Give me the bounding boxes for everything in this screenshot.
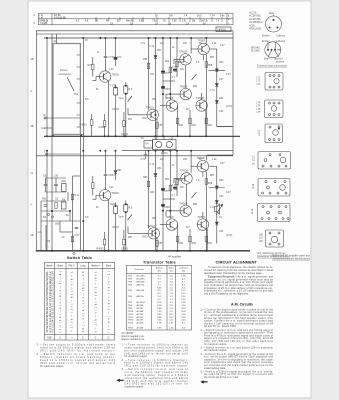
svg-text:4.96: 4.96 bbox=[139, 21, 144, 23]
capacitor C206 bbox=[144, 154, 148, 155]
diode D305 bbox=[215, 201, 218, 204]
svg-text:9s7.7k: 9s7.7k bbox=[201, 21, 209, 23]
svg-text:AC188: AC188 bbox=[137, 327, 144, 330]
svg-text:R60: R60 bbox=[208, 124, 213, 127]
wire bbox=[69, 211, 71, 221]
strip outer box bbox=[39, 13, 234, 25]
svg-text:TR11: TR11 bbox=[128, 314, 134, 316]
svg-text:C87: C87 bbox=[219, 195, 224, 198]
transistor TR513 bbox=[197, 219, 208, 230]
transistor TR509 bbox=[181, 173, 192, 184]
cap C52 bbox=[161, 71, 164, 73]
svg-text:D53: D53 bbox=[219, 61, 224, 64]
terminal bbox=[73, 252, 75, 254]
res R56 bbox=[169, 67, 171, 73]
transistor TR511 bbox=[166, 219, 177, 230]
svg-text:BC148C: BC148C bbox=[137, 278, 146, 280]
wire upper channel +rail bbox=[44, 37, 233, 39]
IC box 1 bbox=[265, 73, 283, 91]
value labels bbox=[112, 191, 120, 195]
svg-text:C: C bbox=[94, 337, 96, 340]
svg-text:14.8.81 9B: 14.8.81 9B bbox=[54, 16, 66, 19]
svg-text:7.74: 7.74 bbox=[210, 15, 215, 17]
junction dot bbox=[104, 250, 106, 252]
svg-text:R.5: R.5 bbox=[129, 207, 133, 210]
wire top rail 2 bbox=[36, 33, 233, 35]
label Power Connector bbox=[59, 68, 79, 96]
svg-text:R80: R80 bbox=[179, 242, 184, 245]
svg-text:A.M. Circuits: A.M. Circuits bbox=[231, 302, 253, 306]
svg-text:2M2: 2M2 bbox=[142, 236, 147, 239]
svg-text:C81: C81 bbox=[43, 175, 48, 178]
value labels bbox=[88, 64, 93, 67]
value labels bbox=[66, 194, 80, 237]
svg-text:scale backing plate.: scale backing plate. bbox=[204, 367, 226, 370]
wire bbox=[108, 81, 110, 136]
junction dot bbox=[104, 136, 106, 138]
coil box 6 (wide) bbox=[258, 204, 291, 222]
value labels bbox=[147, 156, 206, 228]
svg-text:R4003: R4003 bbox=[80, 124, 88, 127]
svg-text:Switch Table: Switch Table bbox=[67, 256, 92, 260]
junction dot bbox=[155, 114, 157, 116]
svg-text:Base: Base bbox=[269, 12, 275, 15]
svg-text:C64: C64 bbox=[219, 110, 224, 113]
svg-text:4.7k: 4.7k bbox=[172, 184, 177, 187]
svg-text:7.4|.2B: 7.4|.2B bbox=[40, 22, 48, 25]
wire bbox=[44, 127, 52, 129]
svg-text:AC188: AC188 bbox=[137, 322, 144, 325]
junction dot bbox=[125, 93, 127, 95]
cap C83 bbox=[161, 205, 164, 207]
node arrows on ground rail bbox=[52, 134, 54, 136]
svg-text:present: present bbox=[276, 60, 284, 63]
resistor R113 bbox=[176, 236, 178, 242]
resistor R105 bbox=[156, 123, 158, 129]
svg-text:Connector: Connector bbox=[59, 72, 72, 76]
value labels bbox=[252, 185, 255, 190]
res R86 bbox=[169, 185, 171, 191]
caption under lower amp bbox=[168, 255, 182, 258]
value labels bbox=[257, 103, 262, 115]
svg-text:D50: D50 bbox=[117, 169, 122, 172]
value labels bbox=[110, 203, 133, 219]
svg-text:R.11: R.11 bbox=[75, 194, 81, 197]
transistor T4001 bbox=[99, 71, 110, 82]
svg-text:BC148C: BC148C bbox=[251, 50, 260, 53]
resistor R112 bbox=[189, 236, 191, 242]
svg-text:(R1) and C39 (R2) for maximum: (R1) and C39 (R2) for maximum output. bbox=[125, 365, 189, 368]
wire lower channel +rail bbox=[122, 150, 233, 152]
coil box 5 (wide) bbox=[258, 179, 290, 197]
svg-text:C67: C67 bbox=[219, 78, 224, 81]
svg-text:R87: R87 bbox=[210, 175, 215, 177]
transistor TR504 bbox=[166, 100, 177, 111]
svg-text:TR507: TR507 bbox=[198, 215, 206, 219]
svg-text:4B: 4B bbox=[31, 58, 34, 61]
svg-text:Emitter: Emitter bbox=[262, 35, 270, 38]
electrolytic capacitor C89 bbox=[173, 187, 176, 189]
svg-text:94s.4V: 94s.4V bbox=[126, 21, 134, 23]
resistor R103 bbox=[189, 118, 191, 124]
value labels bbox=[258, 132, 261, 137]
pot arrow bbox=[128, 96, 133, 102]
svg-text:C8003: C8003 bbox=[112, 227, 119, 229]
svg-text:AF amplifier: AF amplifier bbox=[168, 255, 182, 258]
wire upper channel ground rail bbox=[44, 135, 240, 137]
wire bbox=[115, 151, 117, 170]
svg-text:C804: C804 bbox=[109, 174, 116, 177]
mid column (lower channel input) bbox=[72, 176, 74, 251]
svg-text:C55: C55 bbox=[158, 124, 163, 127]
svg-text:C4005: C4005 bbox=[99, 126, 107, 129]
svg-text:C: C bbox=[82, 337, 84, 340]
svg-text:Transistor: Transistor bbox=[134, 268, 144, 271]
wire vertical x47 upper bbox=[46, 38, 48, 136]
svg-text:(4.5V): (4.5V) bbox=[226, 235, 232, 237]
svg-text:AC188: AC188 bbox=[137, 316, 144, 319]
wire bbox=[128, 232, 148, 234]
component column verticals lower bbox=[148, 151, 150, 229]
speaker bbox=[215, 204, 220, 214]
wire bbox=[41, 220, 80, 222]
wire bbox=[104, 126, 106, 136]
capacitor C804 bbox=[105, 151, 107, 174]
junction dot bbox=[123, 136, 125, 138]
svg-text:R55: R55 bbox=[143, 58, 148, 61]
capacitor C703 bbox=[105, 38, 107, 56]
svg-text:0.47: 0.47 bbox=[220, 163, 225, 165]
svg-text:0.47: 0.47 bbox=[226, 192, 231, 194]
svg-text:C81: C81 bbox=[150, 192, 155, 194]
svg-text:1 b | — o 1 | b — | o 1 — | b: 1 b | — o 1 | b — | o 1 — | b o | — 1 b bbox=[82, 271, 85, 333]
svg-text:C51: C51 bbox=[150, 74, 155, 76]
junction dot bbox=[115, 205, 117, 207]
svg-text:4R7/C: 4R7/C bbox=[161, 152, 168, 155]
svg-text:R59: R59 bbox=[192, 124, 197, 127]
svg-text:Battery: Battery bbox=[156, 267, 164, 270]
value labels bbox=[109, 56, 116, 59]
svg-text:Twkb: Twkb bbox=[110, 203, 116, 206]
svg-text:AF86,AD62: AF86,AD62 bbox=[249, 28, 262, 31]
transistor TR508 bbox=[197, 161, 208, 172]
svg-text:| o — | 1 b | — o | 1 — b | o: | o — | 1 b | — o | 1 — b | o — 1 | — b … bbox=[59, 271, 62, 332]
svg-text:4.7k: 4.7k bbox=[210, 206, 215, 209]
value labels bbox=[141, 137, 169, 155]
resistor R115 bbox=[205, 236, 207, 242]
svg-text:TR15: TR15 bbox=[128, 328, 134, 330]
transistor base diagram 1 bbox=[266, 16, 282, 32]
value labels bbox=[142, 45, 213, 127]
connector pins inside box bbox=[77, 55, 81, 127]
wire bbox=[92, 176, 94, 183]
svg-text:BF194S: BF194S bbox=[137, 281, 145, 283]
svg-text:R82: R82 bbox=[179, 179, 184, 182]
cap C82 bbox=[161, 189, 164, 191]
resistors on bottom rail bbox=[103, 239, 105, 245]
svg-text:2M2: 2M2 bbox=[142, 117, 147, 120]
svg-text:AC187: AC187 bbox=[137, 313, 144, 316]
terminal bbox=[51, 216, 53, 218]
svg-text:C: C bbox=[108, 337, 110, 340]
value labels bbox=[251, 40, 288, 68]
power connector box bbox=[53, 44, 80, 135]
shield tab bbox=[278, 49, 281, 51]
wire bbox=[115, 95, 117, 136]
junction dot bbox=[155, 233, 157, 235]
diode D302 bbox=[215, 84, 218, 87]
svg-text:TR510: TR510 bbox=[166, 215, 174, 219]
transistor TR502 bbox=[180, 54, 191, 65]
svg-text:R84: R84 bbox=[193, 204, 198, 206]
svg-text:for maximum output.: for maximum output. bbox=[125, 355, 148, 358]
svg-text:(R2) and C49 (R4) for maximum: (R2) and C49 (R4) for maximum output. bbox=[40, 349, 115, 353]
capacitor C203 bbox=[44, 205, 48, 206]
svg-text:2.7k: 2.7k bbox=[150, 163, 155, 166]
wire bbox=[115, 38, 117, 58]
value labels bbox=[210, 179, 224, 233]
svg-text:LS: LS bbox=[219, 216, 222, 219]
resistor R106 bbox=[205, 118, 207, 124]
junction dot bbox=[273, 19, 275, 21]
network right of T4001: resistor boxes with dots bbox=[114, 88, 118, 96]
value labels bbox=[31, 58, 47, 237]
svg-text:for maximum output.: for maximum output. bbox=[204, 343, 227, 346]
svg-text:F.M.V.: F.M.V. bbox=[69, 266, 76, 268]
svg-text:C70: C70 bbox=[117, 56, 122, 59]
svg-text:TR505: TR505 bbox=[180, 85, 188, 89]
wire bbox=[128, 114, 147, 116]
second continuation arrow bbox=[200, 380, 207, 383]
svg-text:and a 25 μF capacitor, for the: and a 25 μF capacitor, for the alignment… bbox=[204, 292, 249, 295]
svg-text:for maximum output.: for maximum output. bbox=[40, 364, 64, 368]
value labels bbox=[251, 210, 254, 215]
svg-text:C57: C57 bbox=[165, 72, 170, 75]
diode D303 bbox=[215, 101, 218, 104]
svg-text:R81: R81 bbox=[62, 180, 67, 183]
svg-text:Base: Base bbox=[264, 58, 270, 61]
wire bbox=[41, 200, 66, 202]
value labels bbox=[117, 56, 122, 59]
svg-text:R81: R81 bbox=[152, 217, 157, 220]
svg-text:maximum output.: maximum output. bbox=[125, 386, 144, 389]
junction dot bbox=[170, 93, 172, 95]
coil box 4 (wide) bbox=[258, 152, 291, 170]
svg-text:4.7k: 4.7k bbox=[210, 89, 215, 92]
wire bbox=[145, 151, 147, 154]
value labels bbox=[249, 12, 286, 38]
svg-text:9V: 9V bbox=[85, 40, 88, 42]
resistor R801 bbox=[92, 183, 94, 189]
wire lower channel rail 2 bbox=[36, 155, 233, 157]
transistor TR501 bbox=[147, 109, 158, 120]
resistor R109 bbox=[71, 236, 73, 242]
wire bbox=[115, 214, 117, 251]
svg-text:described under “Dismantling”: described under “Dismantling” on the pre… bbox=[204, 272, 262, 275]
svg-text:T8401: T8401 bbox=[112, 191, 120, 195]
svg-text:2.7k: 2.7k bbox=[150, 45, 155, 48]
svg-text:C87: C87 bbox=[165, 190, 170, 193]
svg-text:58t: 58t bbox=[192, 20, 196, 23]
switch wires lower-left bbox=[67, 192, 69, 201]
capacitor C202 bbox=[54, 184, 58, 185]
value labels bbox=[80, 124, 107, 130]
svg-text:R89: R89 bbox=[192, 242, 197, 245]
junction dot bbox=[162, 93, 164, 95]
svg-text:C84: C84 bbox=[219, 230, 224, 233]
value labels bbox=[45, 271, 111, 340]
transistor TR510 bbox=[180, 205, 191, 216]
value labels bbox=[210, 61, 224, 113]
terminal bbox=[44, 117, 46, 119]
svg-text:TR14: TR14 bbox=[128, 323, 134, 325]
svg-text:14.5: 14.5 bbox=[197, 15, 202, 17]
svg-text:TR504: TR504 bbox=[166, 96, 174, 100]
svg-text:R47: R47 bbox=[128, 119, 133, 121]
svg-text:R51: R51 bbox=[152, 98, 157, 101]
wire bbox=[105, 58, 107, 71]
IC box 2 bbox=[265, 100, 284, 118]
value labels bbox=[121, 133, 129, 136]
svg-text:Medium: Medium bbox=[91, 266, 99, 268]
svg-text:BC148C: BC148C bbox=[137, 276, 146, 278]
svg-text:C85: C85 bbox=[158, 242, 163, 245]
svg-text:R4052: R4052 bbox=[97, 248, 105, 251]
svg-text:C861: C861 bbox=[165, 206, 171, 209]
svg-text:9V: 9V bbox=[203, 23, 206, 25]
terminal bbox=[47, 213, 49, 215]
value labels bbox=[112, 73, 120, 77]
cap C705 bbox=[114, 58, 117, 60]
svg-text:D81: D81 bbox=[157, 167, 162, 170]
wire vertical x47 lower bbox=[46, 151, 48, 251]
svg-text:TR509: TR509 bbox=[180, 169, 188, 173]
svg-text:R54: R54 bbox=[193, 86, 198, 88]
value labels bbox=[110, 85, 133, 101]
value labels bbox=[218, 28, 227, 32]
terminal stubs left (upper) bbox=[44, 117, 80, 119]
svg-text:| 1 — b o | — 1 | b o — | 1 b: | 1 — b o | — 1 | b o — | 1 b | o — 1 | bbox=[108, 271, 111, 332]
svg-text:TR10: TR10 bbox=[128, 311, 134, 313]
svg-text:Electro needed w os.: Electro needed w os. bbox=[122, 338, 146, 341]
wire left vertical bus A bbox=[35, 31, 37, 251]
svg-text:R.5: R.5 bbox=[129, 88, 133, 91]
resistor R701 bbox=[92, 64, 94, 70]
right output column upper bbox=[216, 49, 218, 127]
svg-text:R83: R83 bbox=[165, 179, 170, 181]
wire bbox=[163, 80, 175, 82]
svg-text:mm: mm bbox=[41, 127, 45, 130]
svg-text:component position identificat: component position identifications bbox=[272, 258, 310, 261]
junction dot bbox=[162, 210, 164, 212]
svg-text:(V): (V) bbox=[170, 271, 173, 273]
value labels bbox=[38, 175, 67, 244]
junction dot bbox=[83, 220, 85, 222]
svg-text:R50: R50 bbox=[179, 124, 184, 127]
arrow pointer bbox=[117, 379, 124, 382]
value labels bbox=[257, 235, 289, 259]
svg-text:C4151: C4151 bbox=[121, 133, 129, 136]
svg-text:C561: C561 bbox=[165, 88, 171, 91]
value labels bbox=[109, 174, 116, 177]
resistor R4005 on ground bbox=[103, 121, 105, 127]
svg-text:R57: R57 bbox=[210, 57, 215, 59]
value labels bbox=[252, 158, 255, 166]
svg-text:5B: 5B bbox=[31, 125, 34, 128]
svg-text:D54: D54 bbox=[219, 97, 224, 100]
wire bbox=[216, 206, 222, 215]
row of tick numbers right half bbox=[76, 15, 230, 25]
value labels scattered upper bbox=[54, 40, 233, 121]
svg-text:Power: Power bbox=[60, 68, 68, 72]
junction dot bbox=[69, 210, 71, 212]
transistor TR505 bbox=[180, 88, 191, 99]
network right of T8001 bbox=[114, 206, 118, 214]
wire left vertical bus B bbox=[51, 34, 53, 251]
terminal bbox=[46, 153, 48, 155]
value labels bbox=[97, 248, 129, 251]
diode D81 bbox=[154, 174, 157, 177]
transistor base diagram 2 bbox=[265, 42, 281, 58]
value labels scattered lower bbox=[85, 159, 232, 239]
svg-text:TR12: TR12 bbox=[128, 317, 134, 319]
svg-text:R70: R70 bbox=[88, 64, 93, 67]
svg-text:Collector: Collector bbox=[276, 35, 286, 38]
res R85 bbox=[147, 181, 149, 187]
resistor R104 bbox=[176, 118, 178, 124]
svg-text:2.9t: 2.9t bbox=[182, 20, 186, 23]
svg-text:1L9: 1L9 bbox=[38, 231, 43, 234]
svg-text:AC188: AC188 bbox=[137, 310, 144, 313]
svg-text:a.m;f.m;osc.det;a.f.1;a.f.2;l.: a.m;f.m;osc.det;a.f.1;a.f.2;l.s;ext;gram… bbox=[48, 271, 52, 332]
junction dot bbox=[269, 27, 271, 29]
wire bbox=[163, 198, 175, 200]
wire bbox=[155, 136, 157, 139]
wire bbox=[73, 175, 81, 177]
wire bbox=[104, 245, 106, 251]
svg-text:9B: 9B bbox=[95, 21, 98, 23]
svg-text:Transistor Table: Transistor Table bbox=[143, 261, 176, 265]
diode D304 bbox=[215, 186, 218, 189]
IC box 3 bbox=[265, 124, 283, 143]
HP801 box top right bbox=[216, 27, 231, 32]
wire stub bbox=[56, 34, 58, 44]
diode D51 bbox=[154, 56, 157, 59]
cap C4151 on ground bbox=[123, 121, 125, 127]
resistor R108 bbox=[71, 194, 73, 200]
svg-text:S28: S28 bbox=[47, 337, 52, 340]
svg-text:R58: R58 bbox=[208, 64, 213, 67]
pin dot bbox=[274, 49, 276, 51]
wire bbox=[108, 200, 110, 251]
svg-text:5mm: 5mm bbox=[119, 216, 124, 219]
res R87 bbox=[176, 179, 178, 185]
value labels bbox=[257, 78, 262, 86]
junction dot bbox=[277, 27, 279, 29]
svg-text:TR13: TR13 bbox=[128, 320, 134, 322]
wire bbox=[273, 15, 275, 16]
svg-text:Gram: Gram bbox=[57, 266, 63, 268]
svg-text:Short: Short bbox=[106, 265, 112, 268]
pin leader lines bbox=[268, 51, 272, 57]
resistor R101 bbox=[91, 120, 93, 126]
value labels bbox=[146, 39, 206, 110]
pin dot bbox=[271, 49, 273, 51]
svg-text:Collector: Collector bbox=[179, 267, 188, 270]
capacitor C205 bbox=[104, 174, 108, 175]
value labels bbox=[142, 163, 213, 245]
transistor TR512 bbox=[148, 228, 159, 239]
